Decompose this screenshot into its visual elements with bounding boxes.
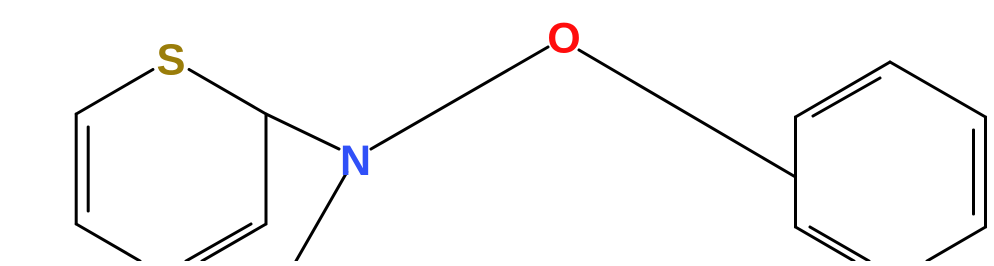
ring B right vertical UR-LR [984,117,987,227]
ring B bottom-right stub LR-B [927,227,986,261]
ring A left vertical UL-LL [75,114,78,224]
svg-text:S: S [156,37,185,85]
ring B apex-UL inner double [813,78,880,116]
ring B right vertical inner double [972,130,975,214]
svg-text:O: O [547,15,580,63]
ring A bottom-left stub LL-B [76,224,140,261]
ring A edge S-UL [76,70,153,115]
ring B bottom-left stub inner double [810,227,869,261]
bond O to ring B ipso [579,50,796,177]
ring B left vertical UL-LL [794,117,797,227]
ring A bottom-right stub LR-B [202,224,266,261]
bond N to methyl (cut at bottom) [296,172,347,261]
ring A bottom-right stub inner double [186,224,251,261]
ring A left vertical inner double [87,127,90,211]
bond ring A UR to N [266,114,339,149]
ring B bottom-left stub LL-B [796,227,855,261]
ring A edge UR-S [189,70,266,115]
bond N to O chain (straight through CH2) [371,47,548,149]
ring B edge apex-UR [890,62,986,117]
svg-text:N: N [340,137,371,185]
ring A right vertical LR-UR [265,114,268,224]
ring B edge apex-UL [796,62,891,117]
